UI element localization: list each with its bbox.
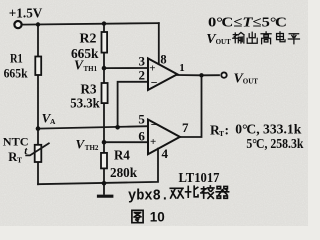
svg-text:OUT: OUT — [216, 38, 232, 46]
svg-text:3: 3 — [139, 54, 146, 69]
svg-text:8: 8 — [160, 52, 166, 66]
svg-text:0°C≤T≤5°C: 0°C≤T≤5°C — [208, 14, 287, 29]
svg-text:R2: R2 — [80, 31, 97, 46]
svg-text:R4: R4 — [114, 148, 130, 163]
svg-text:TH2: TH2 — [85, 144, 99, 152]
svg-text:OUT: OUT — [243, 77, 258, 85]
svg-text:+1.5V: +1.5V — [9, 7, 43, 22]
svg-text:V: V — [74, 57, 84, 72]
svg-text:1: 1 — [179, 62, 185, 74]
svg-text:+: + — [150, 136, 156, 148]
svg-text:4: 4 — [162, 146, 169, 161]
svg-text::: : — [225, 123, 230, 138]
svg-text:2: 2 — [139, 68, 146, 83]
svg-text:R3: R3 — [81, 82, 97, 97]
svg-text:0°C, 333.1k: 0°C, 333.1k — [235, 122, 301, 137]
svg-text:5°C, 258.3k: 5°C, 258.3k — [246, 136, 303, 151]
svg-text:−: − — [151, 76, 158, 90]
svg-text:ybx8.: ybx8. — [128, 188, 169, 205]
svg-text:LT1017: LT1017 — [179, 170, 220, 185]
svg-text:6: 6 — [138, 129, 145, 144]
svg-text:R1: R1 — [10, 51, 23, 66]
svg-text:5: 5 — [138, 112, 145, 127]
svg-text:280k: 280k — [110, 165, 137, 180]
svg-text:A: A — [50, 117, 56, 126]
svg-text:7: 7 — [182, 120, 189, 135]
svg-text:TH1: TH1 — [84, 65, 98, 73]
svg-text:T: T — [17, 155, 22, 164]
svg-text:53.3k: 53.3k — [70, 95, 100, 110]
svg-text:10: 10 — [150, 210, 165, 225]
svg-text:T: T — [219, 129, 224, 138]
svg-text:−: − — [151, 118, 158, 132]
svg-text:+: + — [149, 62, 155, 74]
svg-text:665k: 665k — [4, 66, 28, 80]
